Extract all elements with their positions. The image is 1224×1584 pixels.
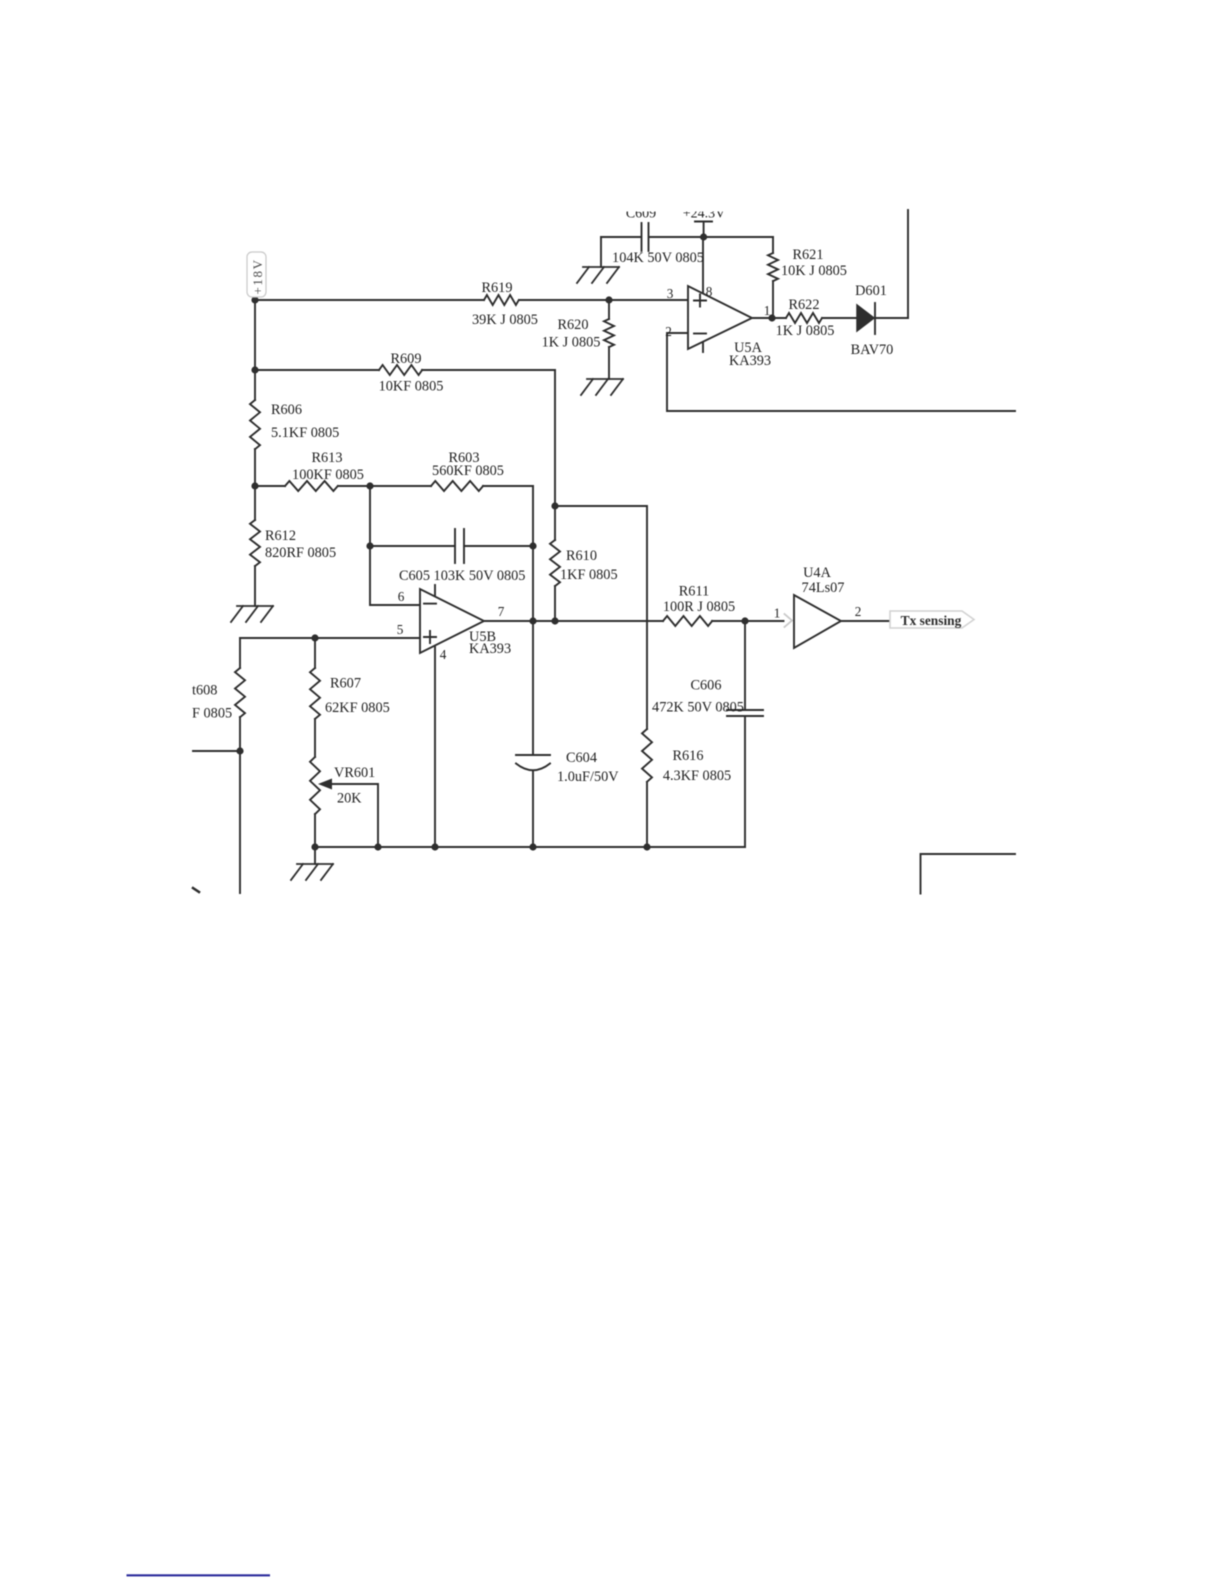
svg-text:74Ls07: 74Ls07 bbox=[802, 580, 845, 596]
svg-text:104K 50V 0805: 104K 50V 0805 bbox=[612, 250, 704, 266]
svg-text:D601: D601 bbox=[855, 283, 887, 299]
svg-text:5.1KF 0805: 5.1KF 0805 bbox=[271, 425, 339, 441]
svg-text:560KF 0805: 560KF 0805 bbox=[432, 463, 504, 479]
svg-text:VR601: VR601 bbox=[334, 765, 375, 781]
svg-text:C604: C604 bbox=[566, 750, 597, 766]
svg-text:62KF 0805: 62KF 0805 bbox=[325, 700, 390, 716]
svg-text:R622: R622 bbox=[789, 297, 820, 313]
svg-text:4: 4 bbox=[440, 647, 447, 662]
svg-text:1: 1 bbox=[774, 606, 781, 621]
svg-text:R606: R606 bbox=[271, 402, 302, 418]
svg-text:7: 7 bbox=[498, 604, 505, 619]
svg-text:4.3KF 0805: 4.3KF 0805 bbox=[663, 768, 731, 784]
svg-text:1: 1 bbox=[764, 303, 771, 318]
svg-text:U4A: U4A bbox=[803, 565, 831, 581]
svg-text:BAV70: BAV70 bbox=[851, 342, 894, 358]
svg-text:1K J 0805: 1K J 0805 bbox=[776, 323, 835, 339]
svg-text:C606: C606 bbox=[691, 678, 722, 694]
svg-text:R611: R611 bbox=[679, 584, 709, 600]
svg-text:R616: R616 bbox=[673, 748, 704, 764]
svg-text:100R J 0805: 100R J 0805 bbox=[663, 599, 735, 615]
svg-text:C605 103K 50V 0805: C605 103K 50V 0805 bbox=[399, 568, 525, 584]
svg-text:R609: R609 bbox=[391, 351, 422, 367]
svg-text:R610: R610 bbox=[566, 548, 597, 564]
svg-text:6: 6 bbox=[398, 589, 405, 604]
svg-text:100KF 0805: 100KF 0805 bbox=[292, 467, 364, 483]
svg-text:R613: R613 bbox=[312, 450, 343, 466]
svg-text:R619: R619 bbox=[482, 280, 513, 296]
svg-text:10KF 0805: 10KF 0805 bbox=[379, 379, 444, 395]
svg-text:R621: R621 bbox=[793, 247, 824, 263]
svg-text:R607: R607 bbox=[330, 676, 361, 692]
svg-text:F 0805: F 0805 bbox=[192, 706, 232, 722]
svg-text:2: 2 bbox=[665, 324, 672, 339]
svg-text:KA393: KA393 bbox=[729, 353, 771, 369]
svg-text:472K 50V 0805: 472K 50V 0805 bbox=[652, 700, 744, 716]
svg-text:2: 2 bbox=[855, 604, 862, 619]
svg-text:3: 3 bbox=[667, 286, 674, 301]
svg-text:20K: 20K bbox=[337, 791, 362, 807]
svg-text:KA393: KA393 bbox=[469, 641, 511, 657]
svg-text:R612: R612 bbox=[265, 528, 296, 544]
svg-text:5: 5 bbox=[397, 622, 404, 637]
svg-text:1.0uF/50V: 1.0uF/50V bbox=[557, 769, 619, 785]
svg-text:1K J 0805: 1K J 0805 bbox=[542, 335, 601, 351]
svg-text:R620: R620 bbox=[558, 317, 589, 333]
svg-text:10K J 0805: 10K J 0805 bbox=[781, 263, 847, 279]
svg-text:t608: t608 bbox=[192, 683, 217, 699]
svg-text:39K J 0805: 39K J 0805 bbox=[472, 312, 538, 328]
svg-text:820RF 0805: 820RF 0805 bbox=[265, 545, 336, 561]
svg-text:+18V: +18V bbox=[250, 258, 265, 294]
svg-text:8: 8 bbox=[706, 284, 713, 299]
svg-text:Tx sensing: Tx sensing bbox=[901, 613, 962, 628]
svg-text:1KF 0805: 1KF 0805 bbox=[560, 567, 618, 583]
